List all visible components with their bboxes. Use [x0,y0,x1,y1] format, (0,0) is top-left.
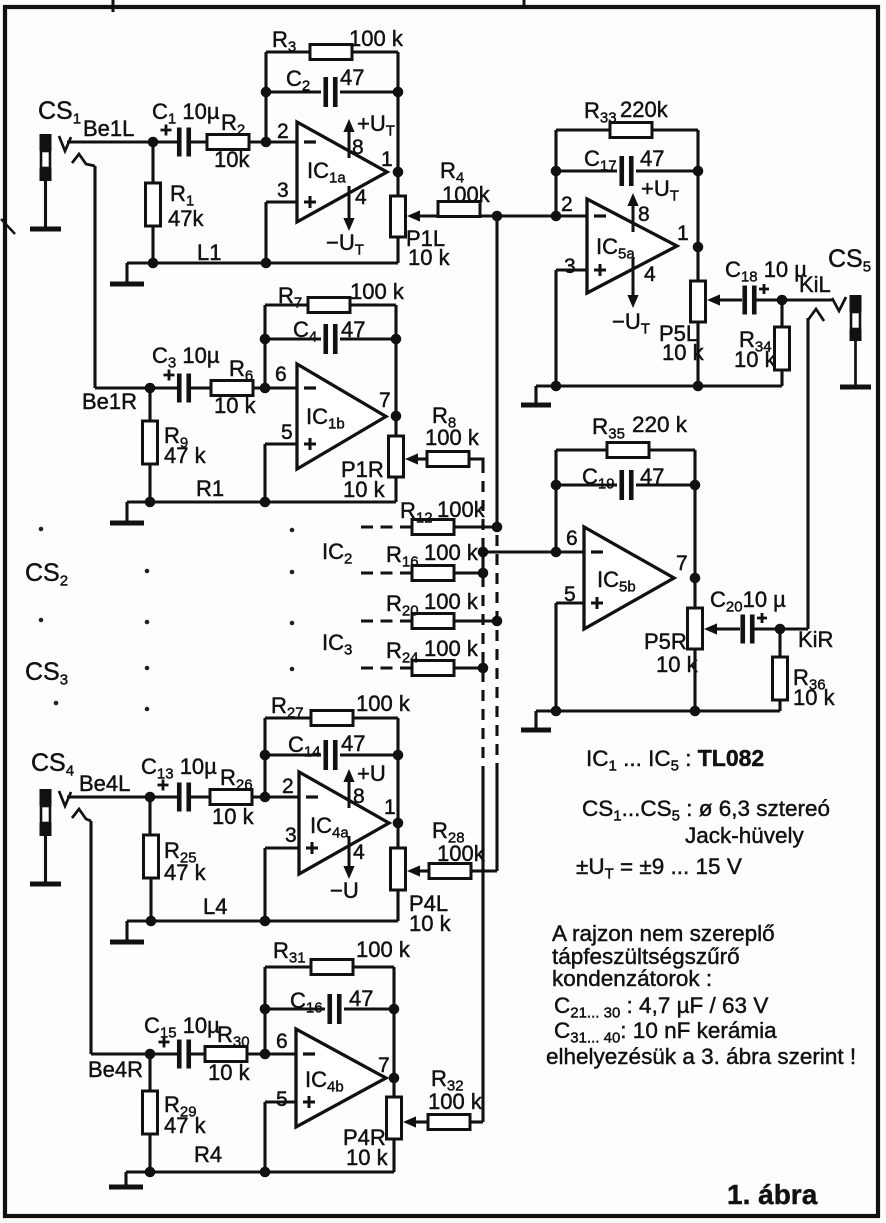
svg-text:Be4R: Be4R [88,1057,143,1082]
wire R35 feedback top [556,448,695,451]
node pin5 ground [260,497,271,508]
wire dashed stub R20 [361,619,412,622]
resistor R30 10k [205,1047,247,1062]
wire CS1 ring to Be1R [93,166,96,388]
wire L bus solid lower [495,768,498,871]
svg-text:8: 8 [352,136,364,159]
svg-text:C13 10µ: C13 10µ [141,754,217,783]
P1R wiper arrow [405,453,418,464]
svg-text:1. ábra: 1. ábra [727,1179,818,1210]
wire R12 to L bus [454,525,497,528]
node R1 bottom [148,258,159,269]
node pin3 ground [261,258,272,269]
svg-text:100k: 100k [437,497,486,522]
wire feedback left vertical IC4a [263,718,266,797]
wire Be4R [91,1052,153,1055]
node R16 / R bus [478,568,489,579]
wire C4 right [340,337,396,340]
svg-text:10 k: 10 k [734,347,777,372]
C3 polarity + [164,370,175,381]
svg-text:5: 5 [276,1088,288,1111]
node C17 left [551,166,562,177]
resistor R24 100k [412,661,454,676]
node IC5b pin6 junction [551,547,562,558]
resistor R9 47k [143,421,158,464]
wire C2 left [266,90,321,93]
svg-text:Be4L: Be4L [79,771,130,796]
svg-text:4: 4 [355,186,367,209]
wire P5R bottom [693,649,696,711]
wire KiL to R34 [780,300,783,327]
svg-text:2: 2 [561,193,573,216]
-U supply arrow IC4a [343,866,354,879]
resistor R33 220k [610,123,652,138]
svg-text:4: 4 [353,841,365,864]
svg-text:100 k: 100 k [356,691,411,716]
wire Be4L [67,795,153,798]
svg-text:47: 47 [341,317,365,342]
wire feedback right vertical IC1b [394,305,397,436]
capacitor C13 10µ [179,783,189,812]
svg-text:1: 1 [677,222,689,245]
wire R27 feedback top [265,716,398,719]
node C14 right [393,750,404,761]
wire L bus solid upper [495,216,498,527]
svg-text:8: 8 [353,785,365,808]
resistor R36 10k [773,657,788,700]
svg-text:10 k: 10 k [212,804,255,829]
wire node to R1 [151,142,154,183]
svg-text:7: 7 [676,552,688,575]
wire C19 left [556,483,617,486]
wire C17 right [636,169,698,172]
potentiometer P5L 10k [691,281,706,322]
wire R bus solid lower [481,768,484,1122]
wire pin3 down to L4 rail [263,848,266,921]
wire C19 right [636,483,695,486]
C15 polarity + [159,1037,170,1048]
wire wiper to R28 [419,869,429,872]
wire R1 ground rail [127,500,396,503]
wire IC4a pin3 [265,846,299,849]
node IC1b output [391,411,402,422]
resistor R27 100k [311,711,353,726]
wire R1 to L1 rail [151,226,154,263]
wire L4 ground rail [127,919,398,922]
node C4 left [260,334,271,345]
jack CS1 tip contact [59,136,71,151]
svg-text:7: 7 [379,389,391,412]
capacitor C19 47 [622,470,632,500]
node R12 / L bus [492,522,503,533]
svg-text:1: 1 [384,796,396,819]
svg-text:7: 7 [378,1054,390,1077]
svg-text:C3 10µ: C3 10µ [152,343,220,372]
+UT supply arrow IC1a [343,119,354,132]
svg-text:5: 5 [281,421,293,444]
ground IC1a [125,263,128,284]
svg-text:47k: 47k [168,206,204,231]
svg-text:100 k: 100 k [425,425,480,450]
node pin3 rail IC5a [551,381,562,392]
node pin2/feedback junction IC4a [260,792,271,803]
ellipsis dots CS2/CS3 channels [39,527,44,532]
svg-text:47 k: 47 k [164,860,207,885]
node Be1R/C3/R9 junction [145,383,156,394]
wire C16 left [265,1007,325,1010]
+U supply arrow IC4a [343,769,354,782]
capacitor C15 10µ [179,1040,189,1069]
op-amp IC4b [296,1029,386,1127]
wire R28 to L bus [471,869,497,872]
capacitor C1 10µ [179,128,189,157]
wire Be1R [95,386,153,389]
svg-text:C2010 µ: C2010 µ [710,587,786,616]
capacitor C20 10µ [743,615,753,644]
+UT supply arrow IC5a [627,193,638,206]
wire R36 to rail [778,700,781,711]
svg-text:2: 2 [277,120,289,143]
wire R4 ground rail [126,1170,394,1173]
wire KiR to R36 [778,629,781,657]
node KiL [777,295,788,306]
svg-text:100k: 100k [442,182,491,207]
svg-text:C18 10 µ: C18 10 µ [725,257,807,286]
node Be4R/C15/R29 junction [145,1049,156,1060]
wire CS5 ring to KiR [806,318,809,629]
wire R29 to R4 rail [148,1134,151,1172]
resistor R6 10k [211,381,253,396]
P5R wiper arrow [704,623,717,634]
svg-text:KiR: KiR [798,627,833,652]
svg-text:10 k: 10 k [214,393,257,418]
wire IC5a pin3 [556,268,587,271]
wire R9 to R1 rail [148,464,151,502]
node IC5b output [690,573,701,584]
wire R32 to R bus [470,1120,483,1123]
capacitor C2 47 [326,77,336,107]
node R20 / L bus [492,616,503,627]
resistor R29 47k [143,1091,158,1134]
resistor R28 100k [429,864,471,879]
jack CS4 [40,789,52,806]
node R25 bottom [146,916,157,927]
C1 polarity + [161,125,172,136]
resistor R1 47k [146,183,161,226]
node pin3 ground IC4a [260,916,271,927]
svg-text:Be1L: Be1L [83,116,134,141]
svg-text:47: 47 [349,986,373,1011]
svg-text:100 k: 100 k [424,589,479,614]
ground IC5a [534,386,537,405]
wire dashed stub R16 [361,571,412,574]
resistor R4 100k [438,202,480,217]
svg-text:A rajzon nem szereplő: A rajzon nem szereplő [552,921,775,946]
wire R30 to IC4b pin6 [247,1052,296,1055]
wire R20 to L bus [454,619,497,622]
wire R31 feedback top [265,965,394,968]
svg-text:10k: 10k [214,147,250,172]
wire pin3 down to L1 rail [264,202,267,263]
svg-text:47: 47 [640,464,664,489]
wire R7 feedback top [265,303,396,306]
wire C14 left [265,753,321,756]
potentiometer P1L 10k [391,196,406,237]
svg-text:+U: +U [357,761,386,786]
wire pin5 down to R4 rail [263,1102,266,1172]
wire feedback left vertical IC1b [263,305,266,388]
resistor R20 100k [412,614,454,629]
-UT supply arrow IC5a [627,295,638,308]
P4L wiper arrow [407,865,420,876]
wire feedback left vertical IC1a [264,52,267,142]
svg-text:47 k: 47 k [164,443,207,468]
node C19 right [690,480,701,491]
P5L wiper arrow [707,294,720,305]
svg-text:±UT = ±9 ... 15 V: ±UT = ±9 ... 15 V [576,854,742,883]
wire pin3 down to rail IC5a [554,270,557,386]
jack CS5 ring contact [808,309,824,321]
node C19 left [551,480,562,491]
wire L bus dashed [495,535,498,768]
svg-text:220 k: 220 k [632,412,688,437]
capacitor C3 10µ [179,374,189,403]
wire P1L bottom [396,237,399,263]
svg-text:6: 6 [276,1030,288,1053]
svg-text:100k: 100k [437,841,486,866]
wire pin5 down to R1 rail [263,444,266,502]
wire R6 to IC1b pin6 [253,386,297,389]
svg-text:47: 47 [640,146,664,171]
jack CS4 ring contact [72,809,91,821]
svg-text:10 k: 10 k [408,245,451,270]
node pin6/feedback junction IC4b [260,1049,271,1060]
svg-text:100 k: 100 k [424,540,479,565]
resistor R8 100k [427,452,469,467]
svg-text:10 k: 10 k [343,477,386,502]
ground IC5b [534,711,537,730]
wire node to R25 [148,797,151,835]
node IC5a pin2 junction [551,211,562,222]
wire node to R29 [148,1054,151,1091]
resistor R25 47k [144,835,159,878]
svg-text:10 k: 10 k [793,685,836,710]
wire wiper to R32 [415,1120,428,1123]
svg-text:10 k: 10 k [662,340,705,365]
wire pin5 down to rail IC5b [554,603,557,711]
svg-text:220k: 220k [620,97,669,122]
jack CS4 tip contact [59,791,71,806]
resistor R12 100k [412,520,454,535]
svg-text:4: 4 [644,263,656,286]
wire output vertical IC5b [693,450,696,608]
resistor R31 100k [311,960,353,975]
wire R4 to IC5a pin2 [480,214,587,217]
potentiometer P4L 10k [391,848,406,890]
svg-text:10 k: 10 k [656,652,699,677]
wire output vertical [396,92,399,196]
svg-text:−U: −U [330,878,359,903]
wire P1R bottom [394,477,397,502]
svg-text:Jack-hüvely: Jack-hüvely [685,823,805,848]
svg-text:47: 47 [341,731,365,756]
svg-text:10 k: 10 k [208,1060,251,1085]
wire R24 to R bus [454,666,483,669]
node P5R bottom rail [690,706,701,717]
ground IC1b [125,502,128,523]
node C14 left [260,750,271,761]
wire C4 left [265,337,321,340]
wire IC1a pin3 [266,200,297,203]
svg-text:P5R: P5R [644,629,687,654]
wire C14 right [340,753,398,756]
node IC1a output [393,167,404,178]
wire P4L bottom [396,890,399,921]
op-amp IC5a [587,199,677,293]
svg-text:3: 3 [277,179,289,202]
svg-text:R4: R4 [194,1142,222,1167]
op-amp IC1a [297,122,387,222]
svg-text:L1: L1 [197,240,221,265]
svg-text:2: 2 [282,775,294,798]
svg-text:100 k: 100 k [349,26,404,51]
node C16 right [389,1004,400,1015]
capacitor C4 47 [326,324,336,354]
node R9 bottom [145,497,156,508]
node C16 left [260,1004,271,1015]
svg-text:6: 6 [275,363,287,386]
svg-text:L4: L4 [203,894,227,919]
C18 polarity + [759,284,769,294]
node R4 / L-bus [492,211,503,222]
svg-text:10 k: 10 k [409,911,452,936]
wire ground rail IC5b [536,709,780,712]
wire Be1L [67,140,153,143]
svg-text:6: 6 [566,527,578,550]
svg-text:elhelyezésük a 3. ábra szerint: elhelyezésük a 3. ábra szerint ! [546,1044,856,1069]
op-amp IC5b [584,527,674,629]
wire node to R9 [148,388,151,421]
svg-text:3: 3 [564,255,576,278]
wire IC1b pin5 [265,442,297,445]
svg-text:1: 1 [381,148,393,171]
resistor R32 100k [428,1115,470,1130]
resistor R16 100k [412,566,454,581]
wire feedback left vertical IC5b [554,450,557,552]
svg-text:kondenzátorok :: kondenzátorok : [552,966,712,991]
svg-text:KiL: KiL [799,272,831,297]
wire R3 feedback top [266,50,398,53]
svg-text:47: 47 [340,65,364,90]
wire R26 to IC4a pin2 [252,795,299,798]
resistor R35 220k [607,443,649,458]
potentiometer P1R 10k [389,436,404,477]
wire dashed stub R12 [361,525,412,528]
wire C20 to KiR [752,627,808,630]
resistor R3 100k [310,45,352,60]
svg-text:10 k: 10 k [346,1145,389,1170]
svg-text:Be1R: Be1R [82,389,137,414]
node C17 right [693,166,704,177]
wire R33 feedback top [556,128,698,131]
wire output vertical IC4a [396,718,399,848]
jack CS1 [40,134,52,151]
node Be4L/C13/R25 junction [145,792,156,803]
wire output vertical IC5a [696,130,699,281]
wire R bus dashed [481,462,484,768]
resistor R26 10k [210,790,252,805]
C13 polarity + [158,780,169,791]
node IC5a output [693,242,704,253]
node C2 left [261,87,272,98]
wire wiper to R8 [417,457,427,460]
wire C17 left [556,169,617,172]
jack CS1 ring contact [72,154,95,166]
wire R25 to L4 rail [149,878,152,921]
capacitor C14 47 [326,740,336,770]
wire R16 to R bus [454,571,483,574]
node Be1L/C1/R1 junction [148,137,159,148]
op-amp IC4a [299,772,389,874]
svg-text:100 k: 100 k [350,279,405,304]
wire R8 to R-bus [469,459,483,462]
wire output vertical IC4b [392,967,395,1097]
svg-text:100 k: 100 k [356,937,411,962]
wire feedback left vertical IC4b [263,967,266,1054]
wire ground rail IC5a [536,384,782,387]
ground IC4a [125,921,128,942]
capacitor C18 10µ [745,286,755,315]
node R24 / R bus [478,663,489,674]
node pin5 ground IC4b [260,1167,271,1178]
wire C2 right [340,90,398,93]
svg-text:C15 10µ: C15 10µ [144,1013,220,1042]
wire R34 to rail [780,370,783,386]
wire IC4b pin5 [265,1100,296,1103]
node pin6/feedback junction [260,383,271,394]
wire P4R bottom [392,1139,395,1172]
capacitor C16 47 [330,994,340,1024]
P1L wiper arrow [407,210,420,221]
wire CS4 ring to Be4R [89,821,92,1054]
wire wiper to C20 [716,627,740,630]
potentiometer P4R 10k [387,1097,402,1139]
wire R2 to IC1a pin2 [249,140,297,143]
wire wiper to C18 [719,298,742,301]
node KiR [775,624,786,635]
wire C16 right [344,1007,394,1010]
P4R wiper arrow [403,1116,416,1127]
jack CS5 [850,295,862,312]
node IC4b output [389,1073,400,1084]
node IC4a output [393,818,404,829]
wire C18 to KiL [754,298,834,301]
resistor R2 10k [207,135,249,150]
svg-text:C1 10µ: C1 10µ [152,99,220,128]
wire L1 ground rail [127,261,398,264]
node C2 right [393,87,404,98]
svg-text:8: 8 [638,203,650,226]
node C4 right [391,334,402,345]
ground IC4b [124,1172,127,1187]
wire P5L bottom [696,322,699,386]
potentiometer P5R 10k [688,608,703,649]
wire IC5b pin5 [556,601,584,604]
resistor R7 100k [308,298,350,313]
wire feedback left vertical IC5a [554,130,557,216]
node P5L bottom rail [693,381,704,392]
capacitor C17 47 [622,156,632,186]
